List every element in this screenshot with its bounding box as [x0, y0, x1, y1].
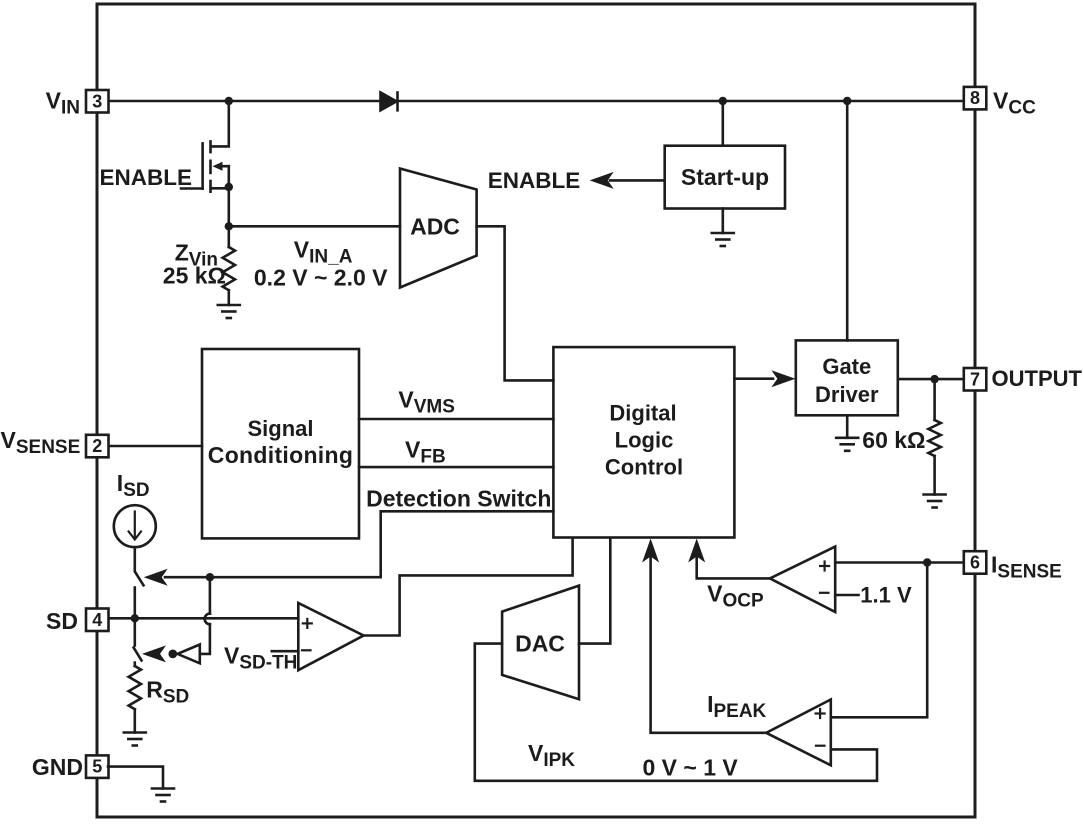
svg-text:Signal: Signal	[247, 416, 313, 441]
wire: U4 output up into DLC	[697, 557, 770, 578]
node: ISENSE junction	[923, 558, 931, 566]
wire: SD node to lower switch	[134, 618, 137, 645]
wire: ENABLE arrow from Start-up	[610, 179, 665, 182]
wire: DLC to DAC	[579, 539, 610, 644]
ground below Start-up	[712, 233, 734, 246]
svg-text:1.1 V: 1.1 V	[860, 583, 912, 608]
pin 2 box VSENSE	[86, 435, 109, 458]
wire: ISENSE node down to U5 plus	[831, 563, 927, 718]
node: VIN junction	[225, 97, 233, 105]
svg-text:Detection Switch: Detection Switch	[366, 486, 551, 512]
wire: Gate Driver output to pin 7	[898, 378, 964, 381]
wire: source down to ADC tap	[228, 188, 231, 247]
wire: top rail to Start-up	[721, 101, 724, 146]
Digital Logic Control block	[553, 347, 734, 537]
buffer U2 (triangle)	[178, 645, 200, 664]
wire: GND pin to ground	[108, 767, 163, 789]
pin 6 box ISENSE	[964, 551, 987, 574]
wire: U5 output up into DLC	[651, 557, 767, 733]
Start-up block	[665, 146, 785, 209]
svg-text:8: 8	[970, 88, 980, 108]
plus sign U3	[303, 619, 312, 628]
minus sign U5	[816, 745, 825, 747]
diode D1 on top rail	[381, 93, 398, 111]
wire: detection switch	[165, 511, 553, 577]
pin 7 box OUTPUT	[964, 368, 987, 391]
svg-text:ENABLE: ENABLE	[488, 168, 581, 193]
pin 4 box SD	[86, 609, 109, 632]
svg-text:0.2 V ~ 2.0 V: 0.2 V ~ 2.0 V	[254, 265, 388, 291]
ADC block	[400, 169, 477, 288]
arrowhead: into Gate Driver (points right)	[771, 370, 795, 387]
arrowhead: U4 output into DLC (points up)	[688, 539, 705, 563]
svg-text:6: 6	[970, 553, 980, 573]
arrowhead: U5 output into DLC (points up)	[642, 539, 659, 563]
wire: supply to Gate Driver	[846, 101, 849, 340]
minus sign U4	[820, 592, 829, 594]
switch S1 blade	[135, 572, 144, 586]
wire: detection node down to buffer (hops over SD rail)	[200, 577, 210, 654]
svg-text:2: 2	[92, 436, 102, 456]
svg-text:GND: GND	[32, 754, 83, 780]
wire: output node down to 60k resistor	[933, 379, 936, 420]
resistor 60k	[928, 420, 940, 456]
wire: SD pin rail	[108, 617, 298, 620]
wire: 60k resistor to ground	[933, 456, 936, 495]
pin 5 box GND	[86, 755, 109, 778]
svg-text:Digital: Digital	[609, 401, 676, 426]
ground at GND pin	[152, 789, 174, 802]
wire: VVMS	[359, 418, 553, 421]
node: start-up tap junction	[719, 97, 727, 105]
wire: pin 6 to U4 plus input	[835, 561, 964, 564]
IC boundary box	[97, 4, 975, 817]
arrowhead: detection switch (points left)	[144, 569, 168, 586]
ground below 60k	[924, 495, 946, 508]
svg-text:60 kΩ: 60 kΩ	[862, 427, 925, 453]
node: ADC tap junction	[225, 222, 233, 230]
arrowhead: switch driver (points left)	[142, 645, 166, 662]
Gate Driver block	[796, 340, 898, 415]
svg-text:Gate: Gate	[822, 354, 871, 379]
pin 8 box VCC	[964, 87, 987, 110]
transistor Q1 ENABLE MOSFET	[181, 141, 229, 191]
svg-text:OUTPUT: OUTPUT	[992, 366, 1083, 391]
svg-text:SD: SD	[46, 608, 78, 634]
DAC block	[502, 586, 579, 700]
svg-text:Logic: Logic	[615, 428, 674, 453]
wire: DAC output to VIPK rail	[475, 644, 877, 781]
node: SD junction	[131, 614, 139, 622]
resistor RSD	[129, 666, 141, 709]
switch S2 blade	[134, 648, 142, 661]
ground below ZVin	[218, 305, 240, 318]
plus sign U5	[816, 709, 825, 718]
svg-text:Start-up: Start-up	[681, 164, 769, 190]
node: driver bubble	[168, 650, 177, 659]
svg-text:25 kΩ: 25 kΩ	[163, 263, 226, 289]
svg-text:3: 3	[92, 91, 102, 111]
node: detection switch junction	[206, 573, 214, 581]
wire: resistor to ground	[228, 290, 231, 305]
wire: ISD to upper switch	[134, 547, 137, 570]
node: MOSFET source junction	[225, 183, 233, 191]
svg-text:DAC: DAC	[515, 631, 565, 657]
wire: VSENSE pin to Signal Conditioning	[108, 445, 202, 448]
Signal Conditioning block	[202, 349, 359, 538]
svg-text:ADC: ADC	[410, 214, 460, 240]
comparator U5 IPEAK	[766, 700, 831, 766]
current source ISD	[114, 505, 156, 547]
wire: 1.1V reference stub	[835, 594, 858, 597]
pin 3 box VIN	[86, 90, 109, 113]
svg-text:4: 4	[92, 610, 102, 630]
svg-text:Control: Control	[605, 455, 683, 480]
ground below RSD	[124, 733, 146, 746]
comparator U3 VSD-TH	[298, 603, 363, 670]
svg-text:Driver: Driver	[815, 382, 879, 407]
wire: VIN node down to MOSFET drain	[211, 101, 229, 146]
svg-text:ENABLE: ENABLE	[99, 165, 192, 190]
arrowhead: ENABLE (points left)	[590, 172, 614, 189]
wire: top rail VIN to VCC	[108, 100, 964, 103]
wire: U3 output to DLC	[364, 539, 573, 636]
wire: ADC input	[229, 225, 400, 228]
comparator U4 VOCP	[770, 547, 835, 612]
wire: upper switch to SD node	[134, 588, 137, 619]
wire: ADC output to DLC	[477, 226, 554, 380]
svg-text:Conditioning: Conditioning	[208, 442, 353, 468]
wire: lower switch to RSD	[134, 663, 137, 666]
ground below Gate Driver	[836, 438, 858, 451]
svg-text:7: 7	[970, 369, 980, 389]
wire: RSD to ground	[134, 709, 137, 732]
wire: DLC to Gate Driver	[734, 377, 773, 380]
resistor ZVin 25k	[223, 247, 235, 290]
wire: VFB	[359, 466, 553, 469]
svg-text:5: 5	[92, 757, 102, 777]
node: gate-driver supply junction	[843, 97, 851, 105]
plus sign U4	[820, 562, 829, 571]
wire: Start-up to ground	[721, 209, 724, 234]
wire: Gate Driver to ground	[846, 415, 849, 438]
node: output junction	[930, 375, 938, 383]
minus sign U3	[302, 649, 311, 651]
svg-text:0 V ~ 1 V: 0 V ~ 1 V	[643, 755, 739, 781]
wire: VSD-TH reference stub	[272, 650, 299, 653]
